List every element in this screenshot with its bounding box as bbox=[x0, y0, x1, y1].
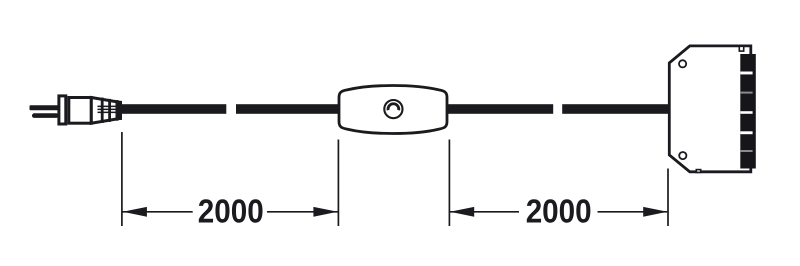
socket strip bbox=[740, 54, 756, 169]
cable segment 3 bbox=[448, 104, 554, 114]
socket gap 2 bbox=[740, 92, 752, 94]
bottom tab bbox=[696, 170, 700, 173]
socket gap 3 bbox=[740, 111, 752, 114]
extension line at box bbox=[667, 169, 669, 227]
plug prong top bbox=[30, 105, 59, 110]
dimension 1 line left part bbox=[123, 211, 193, 213]
dimension 1 arrow right bbox=[313, 207, 337, 217]
top tab bbox=[739, 46, 743, 51]
cable segment 2 bbox=[236, 104, 339, 114]
plug body bbox=[69, 98, 92, 124]
dimension 2 line left part bbox=[450, 211, 519, 213]
dimension 1 line right part bbox=[267, 211, 338, 213]
cable segment 1 bbox=[122, 104, 226, 114]
extension line at switch right bbox=[448, 140, 450, 227]
dimension 2 arrow right bbox=[643, 207, 667, 217]
switch knob inner arc bbox=[388, 104, 399, 110]
socket gap 5 bbox=[740, 150, 752, 152]
dimension 1 arrow left bbox=[123, 207, 147, 217]
plug end cap bbox=[118, 101, 122, 120]
svg-text:2000: 2000 bbox=[198, 192, 264, 229]
extension line at plug bbox=[121, 132, 123, 226]
dimension 2 line right part bbox=[598, 211, 668, 213]
plug ridge bar 2 bbox=[108, 99, 111, 122]
screw hole bottom bbox=[679, 152, 686, 159]
plug ridge bar 3 bbox=[116, 100, 119, 121]
distributor box outline bbox=[669, 46, 751, 172]
extension line at switch left bbox=[337, 140, 339, 227]
plug flange bbox=[59, 96, 66, 124]
socket gap 1 bbox=[740, 72, 752, 75]
screw hole top bbox=[679, 60, 686, 67]
plug prong bottom bbox=[32, 113, 59, 118]
plug strain relief bbox=[91, 98, 120, 124]
svg-text:2000: 2000 bbox=[526, 192, 592, 229]
switch knob outer circle bbox=[384, 100, 402, 118]
plug ridge bar 1 bbox=[101, 98, 104, 123]
cable segment 4 bbox=[562, 104, 668, 114]
dimension 2 arrow left bbox=[450, 207, 474, 217]
switch body bbox=[339, 86, 447, 134]
socket gap 4 bbox=[740, 131, 752, 134]
plug ridge mid dashes bbox=[98, 106, 119, 114]
